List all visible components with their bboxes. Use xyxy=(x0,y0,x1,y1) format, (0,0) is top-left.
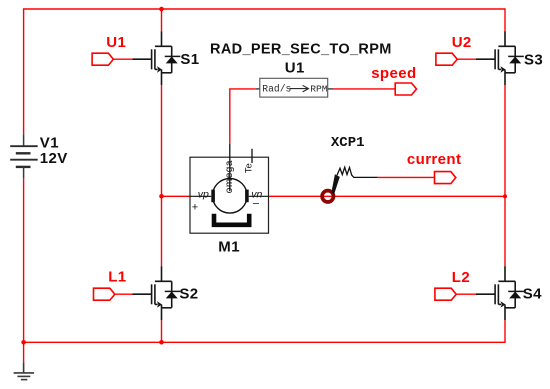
svg-text:U1: U1 xyxy=(106,34,126,51)
connector flag U2 xyxy=(436,53,457,65)
svg-text:XCP1: XCP1 xyxy=(331,135,365,151)
connector flag L2 xyxy=(435,288,456,300)
svg-text:S3: S3 xyxy=(524,51,543,68)
svg-text:Te: Te xyxy=(243,163,254,173)
node mid-right junction xyxy=(503,194,507,198)
svg-text:L2: L2 xyxy=(452,269,470,286)
svg-text:omega: omega xyxy=(224,160,235,193)
wire S1 source to mid node xyxy=(161,85,163,196)
ground xyxy=(14,363,34,380)
motor M1 stator bracket xyxy=(214,214,249,225)
svg-text:–: – xyxy=(253,198,260,210)
wire S3 source to right mid node xyxy=(504,85,506,196)
wire S2 source xyxy=(161,320,163,342)
U1 block arrow xyxy=(290,85,309,92)
connector flag speed xyxy=(395,83,416,95)
wire L1 flag to S2 gate xyxy=(115,293,133,295)
connector flag current xyxy=(435,172,456,184)
svg-text:M1: M1 xyxy=(218,238,240,255)
U1 block box xyxy=(260,78,328,97)
wire top bus xyxy=(24,9,505,134)
svg-text:speed: speed xyxy=(371,65,416,82)
svg-text:L1: L1 xyxy=(108,269,126,286)
svg-text:Rad/s: Rad/s xyxy=(262,84,291,95)
battery V1 top pin xyxy=(23,134,25,146)
connector flag L1 xyxy=(94,288,115,300)
wire L2 flag to S4 gate xyxy=(456,293,476,295)
wire S2 drain xyxy=(161,196,163,266)
transistor S3 xyxy=(476,31,524,85)
XCP1 cable squiggle xyxy=(337,167,378,177)
wire motor left xyxy=(162,195,191,197)
motor M1 box xyxy=(190,157,269,233)
svg-text:S1: S1 xyxy=(180,51,199,68)
wire bottom bus xyxy=(24,320,505,342)
node bottom-left junction xyxy=(21,340,26,345)
svg-text:RAD_PER_SEC_TO_RPM: RAD_PER_SEC_TO_RPM xyxy=(210,41,392,57)
XCP1 clamp ring xyxy=(322,191,333,202)
converter block U1 xyxy=(256,78,334,97)
U1 block left pin xyxy=(256,88,260,90)
node S2 bottom junction xyxy=(159,340,164,345)
wire motor omega to U1 block xyxy=(230,89,256,144)
svg-text:RPM: RPM xyxy=(310,84,328,95)
connector flag U1 xyxy=(92,53,113,65)
svg-text:current: current xyxy=(407,151,461,168)
motor M1 left lead xyxy=(190,195,211,197)
wire probe to current flag xyxy=(378,176,435,178)
motor M1 Te pin xyxy=(251,149,253,163)
battery V1 bottom pin xyxy=(23,167,25,179)
XCP1 probe body xyxy=(331,174,339,194)
transistor S4 xyxy=(476,266,524,320)
wire motor right to right bus xyxy=(269,195,506,197)
motor M1 omega pin xyxy=(229,144,231,191)
svg-text:S2: S2 xyxy=(179,286,198,303)
wire left bus lower xyxy=(23,179,25,363)
svg-text:12V: 12V xyxy=(40,150,68,167)
wire U1 block to speed flag xyxy=(334,88,396,90)
svg-text:U2: U2 xyxy=(452,34,472,51)
node top junction xyxy=(159,7,164,12)
wire U1 flag to S1 gate xyxy=(113,58,132,60)
motor M1 right lead xyxy=(249,195,269,197)
transistor S2 xyxy=(133,266,181,320)
wire S1 drain xyxy=(161,9,163,31)
U1 block right pin xyxy=(328,88,334,90)
transistor S1 xyxy=(133,31,181,85)
wire U2 flag to S3 gate xyxy=(457,58,476,60)
current probe XCP1 xyxy=(322,167,378,202)
svg-text:S4: S4 xyxy=(523,286,542,303)
motor M1 rotor circle xyxy=(213,179,248,214)
motor M1 left brush xyxy=(211,190,215,203)
node mid-left junction xyxy=(159,194,164,199)
svg-text:+: + xyxy=(192,201,198,213)
svg-text:vp: vp xyxy=(198,189,209,201)
motor M1 right brush xyxy=(245,190,249,203)
battery V1 plates xyxy=(10,146,38,167)
wire S4 drain xyxy=(504,196,506,266)
svg-text:U1: U1 xyxy=(285,59,305,76)
motor M1 xyxy=(190,144,269,234)
